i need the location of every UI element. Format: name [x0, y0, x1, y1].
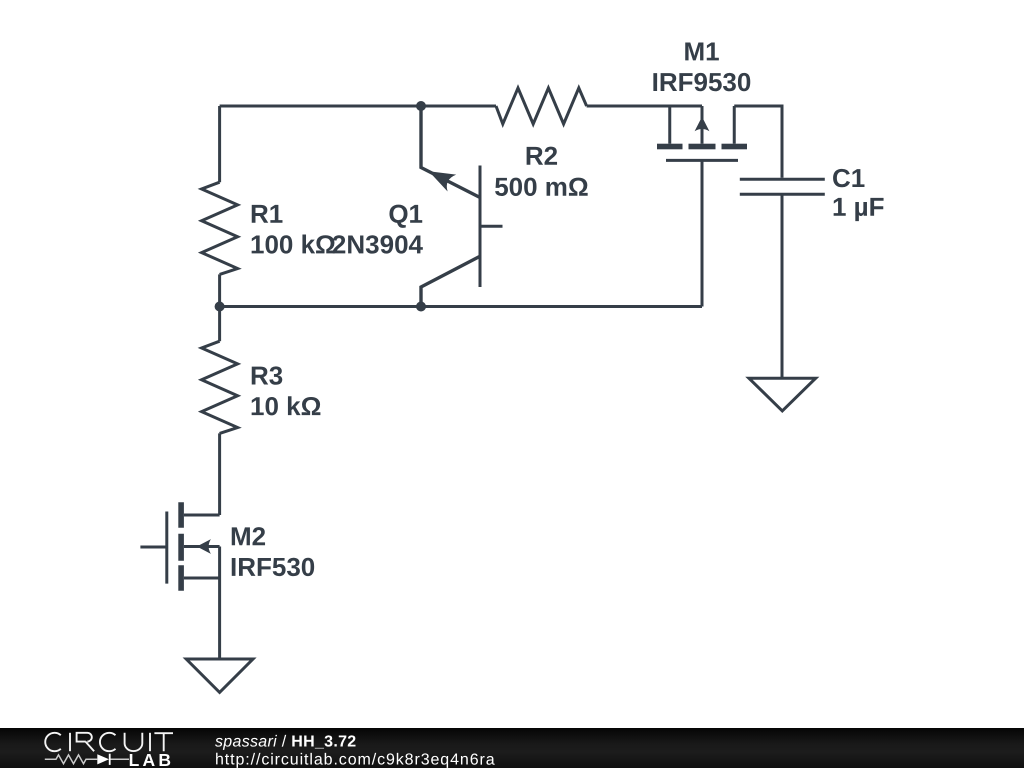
svg-text:Q1: Q1: [388, 199, 423, 229]
node junction bottom left: [215, 302, 225, 312]
svg-text:spassari / HH_3.72: spassari / HH_3.72: [215, 733, 356, 750]
svg-text:100 kΩ: 100 kΩ: [250, 229, 336, 259]
wire top rail: [220, 105, 496, 108]
mosfet M2: [140, 502, 219, 591]
gate bar M2: [165, 512, 168, 584]
emitter lead Q1: [421, 106, 480, 198]
body stem M1: [701, 106, 704, 144]
drain lead M2: [184, 514, 220, 517]
logo resistor-diode glyph: [45, 755, 129, 764]
svg-text:http://circuitlab.com/c9k8r3eq: http://circuitlab.com/c9k8r3eq4n6ra: [215, 751, 496, 768]
svg-text:500 mΩ: 500 mΩ: [494, 172, 589, 202]
label R1 100 kOhm: [250, 199, 336, 260]
collector lead Q1: [421, 256, 480, 306]
wire M1 gate to bottom rail: [701, 160, 704, 306]
label C1 1uF: [832, 163, 885, 222]
svg-text:10 kΩ: 10 kΩ: [250, 391, 321, 421]
mosfet M1: [657, 106, 747, 160]
body arrow M2 (points left, NMOS): [197, 539, 211, 554]
channel bar 3 M2: [178, 565, 184, 591]
channel bar 2 M1: [689, 144, 716, 150]
capacitor C1: [740, 179, 825, 194]
source lead M2: [184, 577, 220, 580]
wire M2 source to ground: [218, 547, 221, 660]
body arrow M1 (points up, PMOS): [695, 117, 710, 131]
channel bar 1 M2: [178, 502, 184, 528]
svg-text:R2: R2: [525, 141, 558, 171]
svg-text:R3: R3: [250, 360, 283, 390]
drain lead M1: [733, 106, 736, 144]
label M2 IRF530: [230, 521, 315, 582]
channel bar 1 M1: [657, 144, 683, 150]
svg-text:R1: R1: [250, 199, 283, 229]
ground G1: [749, 378, 816, 411]
body stem M2: [184, 545, 220, 548]
logo diode symbol: [97, 754, 109, 764]
gate bar M1: [666, 159, 738, 162]
CircuitLab logo text CIRCUIT (drawn): [45, 733, 173, 751]
svg-text:LAB: LAB: [129, 750, 175, 768]
resistor R1: [202, 106, 238, 307]
channel bar 2 M2: [178, 534, 184, 561]
bottom plate C1: [740, 193, 825, 196]
svg-text:M2: M2: [230, 521, 266, 551]
svg-text:1 µF: 1 µF: [832, 192, 885, 222]
node junction top: [416, 101, 426, 111]
base stub Q1: [480, 225, 503, 228]
top plate C1: [740, 178, 825, 181]
wire M1 drain to C1: [734, 106, 782, 178]
svg-text:IRF530: IRF530: [230, 552, 315, 582]
label R2 500 mOhm: [494, 141, 589, 202]
svg-text:2N3904: 2N3904: [332, 229, 424, 259]
wire R3 to M2 drain: [218, 433, 221, 515]
wire R2 to M1 source: [587, 105, 702, 108]
wire bottom rail: [220, 305, 702, 308]
gate stub M2: [140, 546, 166, 549]
channel bar 3 M1: [722, 144, 748, 150]
svg-text:M1: M1: [683, 36, 719, 66]
transistor Q1: [421, 106, 503, 307]
footer bar: [0, 728, 1024, 768]
resistor R2: [496, 88, 587, 124]
resistor R3: [202, 307, 238, 434]
label Q1 2N3904: [332, 199, 424, 260]
svg-text:IRF9530: IRF9530: [652, 67, 752, 97]
ground G2: [186, 659, 253, 692]
node junction Q1 collector: [416, 302, 426, 312]
svg-text:C1: C1: [832, 163, 865, 193]
wire C1 to ground: [781, 194, 784, 377]
emitter arrow Q1: [429, 171, 456, 191]
base bar Q1: [479, 166, 482, 288]
source lead M1: [668, 106, 671, 144]
label M1 IRF9530: [652, 36, 752, 97]
label R3 10 kOhm: [250, 360, 321, 421]
